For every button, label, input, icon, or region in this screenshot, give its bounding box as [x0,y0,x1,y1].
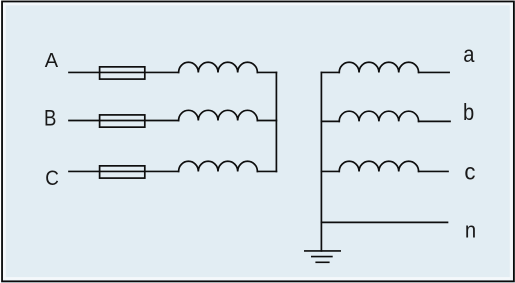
inductor primary winding A [179,62,258,72]
wire coil b out [419,120,450,122]
svg-text:c: c [464,158,475,184]
svg-text:b: b [463,99,474,125]
wire coil A to bus [257,71,276,73]
fuse FB [100,115,145,127]
inductor secondary winding a [339,62,418,72]
svg-text:a: a [463,41,475,67]
wire phase A in [69,71,179,73]
svg-text:A: A [45,50,59,72]
svg-text:B: B [44,106,56,131]
ground [305,251,340,262]
wire phase C in [69,170,179,172]
primary neutral bus wire [275,72,277,171]
wire coil C to bus [257,170,276,172]
wire bus to coil b [321,120,339,122]
secondary bus wire [320,72,322,250]
wire neutral n [321,221,447,223]
inductor primary winding C [179,161,258,171]
wire coil B to bus [257,120,276,122]
inductor secondary winding b [339,111,418,121]
wire coil c out [419,170,448,172]
svg-text:n: n [465,217,476,242]
fuse FC [100,166,145,178]
inductor primary winding B [179,110,258,120]
wire bus to coil a [321,71,339,73]
wire coil a out [419,71,450,73]
svg-text:C: C [45,167,59,190]
wire bus to coil c [321,170,339,172]
inductor secondary winding c [339,161,418,171]
wire phase B in [69,120,179,122]
fuse FA [100,67,145,79]
